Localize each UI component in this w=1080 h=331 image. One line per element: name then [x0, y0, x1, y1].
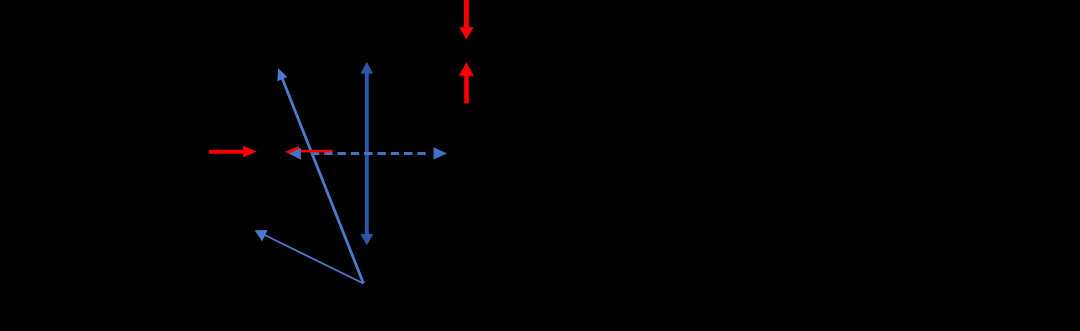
red arrow pointing right (object arrow at left) [209, 146, 257, 157]
vertical dark blue double-headed lens arrow [360, 62, 373, 246]
blue left arrowhead of dashed axis arrow [289, 148, 301, 160]
horizontal dashed blue line (principal axis, under red arrow) [311, 152, 430, 155]
red arrow pointing up (below the down arrow) [459, 62, 474, 103]
short slanted blue ray arrow (from bottom vertex to lower-left) [255, 230, 364, 284]
long slanted blue ray arrow (from bottom vertex up-left) [277, 68, 363, 283]
red arrow pointing down (top, clipped at image top) [459, 0, 473, 39]
blue right arrowhead of dashed axis arrow [434, 147, 448, 159]
red arrow pointing left (over dashed line, under blue left head) [285, 146, 333, 158]
